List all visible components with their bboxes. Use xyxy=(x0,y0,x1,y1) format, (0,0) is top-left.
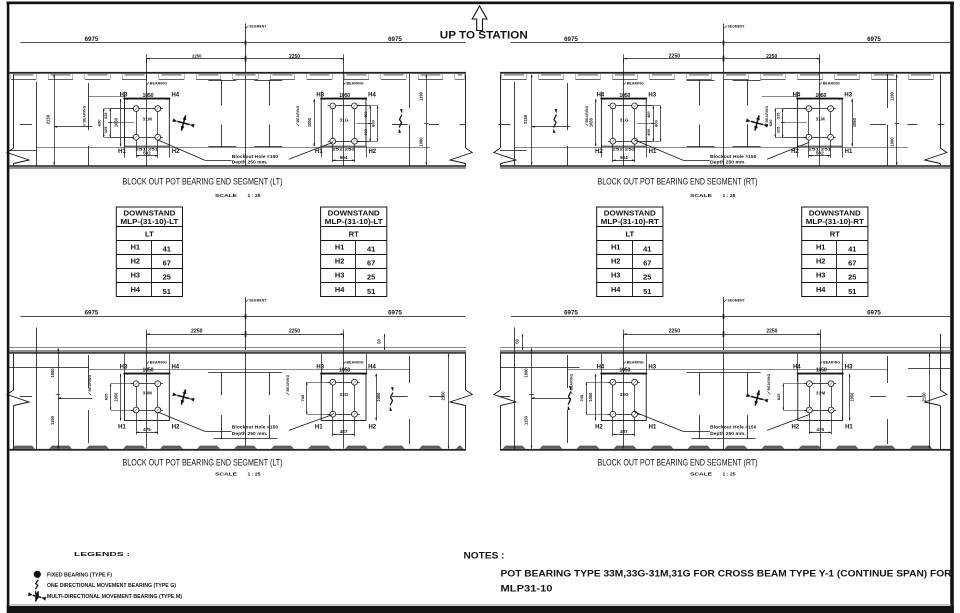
svg-text:2250: 2250 xyxy=(766,329,777,335)
svg-text:325: 325 xyxy=(776,126,781,133)
svg-text:Depth 250 mm.: Depth 250 mm. xyxy=(710,160,746,166)
svg-text:MLP-(31-10)-LT: MLP-(31-10)-LT xyxy=(325,217,384,226)
svg-text:825: 825 xyxy=(776,393,781,400)
svg-text:1050: 1050 xyxy=(339,367,350,373)
svg-text:487: 487 xyxy=(620,429,628,434)
svg-text:H3: H3 xyxy=(335,271,344,280)
svg-text:6975: 6975 xyxy=(564,309,578,316)
svg-text:650: 650 xyxy=(97,119,102,126)
svg-text:67: 67 xyxy=(848,259,856,268)
svg-text:475: 475 xyxy=(816,427,824,432)
svg-text:H3: H3 xyxy=(316,365,324,371)
svg-text:BEARING: BEARING xyxy=(296,105,300,122)
svg-text:31M: 31M xyxy=(143,117,152,122)
svg-text:MLP-(31-10)-RT: MLP-(31-10)-RT xyxy=(601,217,660,226)
svg-text:31G: 31G xyxy=(339,117,348,122)
svg-text:6975: 6975 xyxy=(867,36,881,43)
svg-text:31M: 31M xyxy=(816,117,825,122)
svg-text:H1: H1 xyxy=(816,243,825,252)
svg-text:BEARING: BEARING xyxy=(585,105,589,122)
svg-text:H2: H2 xyxy=(595,424,603,430)
svg-text:1000: 1000 xyxy=(419,137,424,147)
svg-text:H3: H3 xyxy=(844,93,852,99)
svg-text:1050: 1050 xyxy=(339,93,350,99)
svg-text:1000: 1000 xyxy=(523,368,528,378)
svg-text:FIXED BEARING (TYPE F): FIXED BEARING (TYPE F) xyxy=(47,573,112,579)
svg-text:SEGMENT: SEGMENT xyxy=(249,298,266,302)
svg-text:2250: 2250 xyxy=(191,329,203,335)
svg-text:UP TO STATION: UP TO STATION xyxy=(440,29,528,41)
svg-text:33G: 33G xyxy=(339,392,348,397)
svg-text:Depth 250 mm.: Depth 250 mm. xyxy=(232,160,268,166)
svg-text:25: 25 xyxy=(163,273,171,282)
svg-text:487: 487 xyxy=(340,429,348,434)
svg-text:H3: H3 xyxy=(120,365,128,371)
svg-text:2150: 2150 xyxy=(921,392,926,402)
svg-text:2250: 2250 xyxy=(192,53,202,58)
svg-text:H2: H2 xyxy=(368,424,376,430)
svg-text:H1: H1 xyxy=(649,424,657,430)
svg-text:H1: H1 xyxy=(335,243,344,252)
svg-text:BEARING: BEARING xyxy=(347,81,364,85)
svg-text:Blockout Hole #150: Blockout Hole #150 xyxy=(232,154,279,160)
svg-text:325: 325 xyxy=(103,112,108,119)
svg-text:Blockout Hole #150: Blockout Hole #150 xyxy=(710,425,757,431)
svg-text:RT: RT xyxy=(830,230,840,239)
svg-text:2250: 2250 xyxy=(289,54,300,60)
svg-text:H4: H4 xyxy=(597,365,605,371)
svg-text:BLOCK OUT POT BEARING END SEG: BLOCK OUT POT BEARING END SEGMENT (RT) xyxy=(598,175,758,186)
svg-text:BEARING: BEARING xyxy=(823,361,840,365)
svg-text:745: 745 xyxy=(579,394,584,401)
svg-text:Depth 250 mm.: Depth 250 mm. xyxy=(710,431,746,437)
svg-text:H3: H3 xyxy=(316,93,324,99)
svg-text:1050: 1050 xyxy=(143,367,154,373)
svg-text:475: 475 xyxy=(143,427,151,432)
svg-text:BLOCK OUT POT BEARING END SEG: BLOCK OUT POT BEARING END SEGMENT (LT) xyxy=(123,175,283,186)
svg-text:SCALE: SCALE xyxy=(215,472,237,477)
svg-text:H3: H3 xyxy=(648,365,656,371)
svg-text:2250: 2250 xyxy=(289,329,300,335)
svg-text:51: 51 xyxy=(163,287,171,296)
svg-text:1050: 1050 xyxy=(815,93,826,99)
svg-text:H2: H2 xyxy=(595,149,603,155)
svg-text:400: 400 xyxy=(646,111,651,118)
svg-text:1050: 1050 xyxy=(143,93,154,99)
svg-text:33M: 33M xyxy=(143,391,152,396)
svg-text:Blockout Hole #150: Blockout Hole #150 xyxy=(232,425,279,431)
svg-text:1000: 1000 xyxy=(50,368,55,378)
svg-text:67: 67 xyxy=(163,259,171,268)
svg-text:1050: 1050 xyxy=(376,392,381,402)
svg-text:400: 400 xyxy=(646,128,651,135)
svg-text:33G: 33G xyxy=(620,392,629,397)
svg-text:H2: H2 xyxy=(335,257,344,266)
svg-text:H3: H3 xyxy=(648,93,656,99)
svg-text:BEARING: BEARING xyxy=(627,361,644,365)
svg-text:H2: H2 xyxy=(172,424,180,430)
svg-text:6975: 6975 xyxy=(85,36,99,43)
svg-text:H4: H4 xyxy=(816,285,826,294)
svg-text:6975: 6975 xyxy=(564,36,578,43)
svg-text:325: 325 xyxy=(776,112,781,119)
svg-text:800: 800 xyxy=(370,119,375,126)
svg-text:41: 41 xyxy=(848,245,856,254)
svg-text:H1: H1 xyxy=(118,149,126,155)
svg-text:BLOCK OUT POT BEARING END SEG: BLOCK OUT POT BEARING END SEGMENT (RT) xyxy=(598,456,758,467)
svg-text:325: 325 xyxy=(103,126,108,133)
svg-text:1050: 1050 xyxy=(852,117,857,127)
svg-text:BEARING: BEARING xyxy=(765,105,769,122)
svg-text:BEARING: BEARING xyxy=(823,81,840,85)
svg-text:1150: 1150 xyxy=(50,415,55,425)
svg-text:H4: H4 xyxy=(368,365,376,371)
svg-text:502: 502 xyxy=(143,151,151,156)
svg-text:2150: 2150 xyxy=(46,114,51,124)
svg-text:25: 25 xyxy=(367,273,375,282)
svg-text:H1: H1 xyxy=(649,149,657,155)
svg-text:51: 51 xyxy=(367,287,375,296)
svg-text:LT: LT xyxy=(145,230,154,239)
svg-text:ONE DIRECTIONAL MOVEMENT BEARI: ONE DIRECTIONAL MOVEMENT BEARING (TYPE G… xyxy=(47,583,176,589)
svg-text:6975: 6975 xyxy=(867,309,881,316)
svg-text:H2: H2 xyxy=(172,149,180,155)
svg-text:SEGMENT: SEGMENT xyxy=(249,25,266,29)
svg-text:MLP31-10: MLP31-10 xyxy=(501,584,553,594)
svg-text:H4: H4 xyxy=(131,285,141,294)
svg-text:H2: H2 xyxy=(791,149,799,155)
svg-text:50: 50 xyxy=(515,339,520,344)
svg-text:H2: H2 xyxy=(611,257,620,266)
svg-text:41: 41 xyxy=(163,245,171,254)
svg-text:400: 400 xyxy=(363,111,368,118)
svg-text:504: 504 xyxy=(620,155,628,160)
svg-text:745: 745 xyxy=(300,394,305,401)
svg-text:1050: 1050 xyxy=(113,392,118,402)
svg-text:6975: 6975 xyxy=(388,36,402,43)
svg-text:BEARING: BEARING xyxy=(767,373,771,390)
svg-text:SCALE: SCALE xyxy=(690,193,712,198)
svg-text:H2: H2 xyxy=(368,149,376,155)
svg-text:1 : 25: 1 : 25 xyxy=(723,193,737,198)
svg-text:51: 51 xyxy=(848,287,856,296)
svg-text:1 : 25: 1 : 25 xyxy=(723,472,737,477)
svg-text:POT BEARING TYPE 33M,33G-31M,3: POT BEARING TYPE 33M,33G-31M,31G FOR CRO… xyxy=(501,569,953,579)
svg-text:1190: 1190 xyxy=(889,91,894,101)
svg-text:33M: 33M xyxy=(816,391,825,396)
svg-text:H1: H1 xyxy=(131,243,140,252)
svg-text:SEGMENT: SEGMENT xyxy=(728,298,745,302)
svg-text:1190: 1190 xyxy=(419,91,424,101)
svg-text:H1: H1 xyxy=(315,424,323,430)
svg-text:Blockout Hole #150: Blockout Hole #150 xyxy=(710,154,757,160)
svg-text:1 : 25: 1 : 25 xyxy=(248,193,262,198)
svg-text:H3: H3 xyxy=(120,93,128,99)
svg-text:H4: H4 xyxy=(611,285,621,294)
svg-text:BEARING: BEARING xyxy=(286,374,290,391)
svg-text:825: 825 xyxy=(104,393,109,400)
svg-text:1050: 1050 xyxy=(588,392,593,402)
svg-text:25: 25 xyxy=(848,273,856,282)
svg-text:400: 400 xyxy=(363,128,368,135)
svg-text:1050: 1050 xyxy=(589,117,594,127)
svg-text:BEARING: BEARING xyxy=(88,374,92,391)
svg-text:41: 41 xyxy=(643,245,651,254)
svg-text:H3: H3 xyxy=(611,271,620,280)
svg-text:LEGENDS :: LEGENDS : xyxy=(74,552,130,558)
svg-text:RT: RT xyxy=(349,230,359,239)
svg-text:H4: H4 xyxy=(335,285,345,294)
svg-text:1050: 1050 xyxy=(850,392,855,402)
svg-text:NOTES :: NOTES : xyxy=(464,551,505,561)
svg-text:H4: H4 xyxy=(793,365,801,371)
svg-text:50: 50 xyxy=(377,339,382,344)
svg-text:67: 67 xyxy=(643,259,651,268)
svg-text:1 : 25: 1 : 25 xyxy=(248,472,262,477)
svg-text:H3: H3 xyxy=(131,271,140,280)
svg-text:H4: H4 xyxy=(171,365,179,371)
svg-text:51: 51 xyxy=(643,287,651,296)
svg-text:H2: H2 xyxy=(131,257,140,266)
svg-text:H4: H4 xyxy=(368,93,376,99)
svg-text:BEARING: BEARING xyxy=(83,105,87,122)
svg-text:H1: H1 xyxy=(845,149,853,155)
svg-text:SCALE: SCALE xyxy=(690,472,712,477)
svg-text:H1: H1 xyxy=(845,424,853,430)
svg-text:67: 67 xyxy=(367,259,375,268)
svg-text:MLP-(31-10)-LT: MLP-(31-10)-LT xyxy=(120,217,179,226)
svg-text:800: 800 xyxy=(654,119,659,126)
svg-text:BEARING: BEARING xyxy=(150,81,167,85)
svg-text:502: 502 xyxy=(816,151,824,156)
svg-text:2250: 2250 xyxy=(669,53,681,59)
svg-text:H4: H4 xyxy=(793,93,801,99)
svg-text:BLOCK OUT POT BEARING END SEG: BLOCK OUT POT BEARING END SEGMENT (LT) xyxy=(123,456,283,467)
svg-text:LT: LT xyxy=(625,230,634,239)
svg-text:BEARING: BEARING xyxy=(347,361,364,365)
svg-text:BEARING: BEARING xyxy=(150,361,167,365)
svg-text:25: 25 xyxy=(643,273,651,282)
svg-text:SCALE: SCALE xyxy=(215,193,237,198)
svg-text:252 252: 252 252 xyxy=(332,148,355,152)
svg-text:31G: 31G xyxy=(620,117,629,122)
svg-text:1050: 1050 xyxy=(816,367,827,373)
svg-text:H2: H2 xyxy=(816,257,825,266)
svg-text:H4: H4 xyxy=(171,93,179,99)
svg-text:H4: H4 xyxy=(597,93,605,99)
svg-text:2250: 2250 xyxy=(766,54,777,60)
svg-text:1050: 1050 xyxy=(619,93,630,99)
svg-text:41: 41 xyxy=(367,245,375,254)
svg-text:H2: H2 xyxy=(791,424,799,430)
svg-text:BEARING: BEARING xyxy=(627,81,644,85)
svg-text:H3: H3 xyxy=(816,271,825,280)
svg-text:1150: 1150 xyxy=(523,415,528,425)
svg-text:MULTI-DIRECTIONAL MOVEMENT BEA: MULTI-DIRECTIONAL MOVEMENT BEARING (TYPE… xyxy=(47,594,182,600)
svg-text:1000: 1000 xyxy=(889,137,894,147)
svg-text:Depth 250 mm.: Depth 250 mm. xyxy=(232,431,268,437)
svg-text:2150: 2150 xyxy=(440,391,445,401)
svg-text:252 252: 252 252 xyxy=(612,148,635,152)
svg-text:1050: 1050 xyxy=(619,367,630,373)
svg-text:1050: 1050 xyxy=(307,117,312,127)
svg-text:504: 504 xyxy=(340,155,348,160)
svg-text:H1: H1 xyxy=(611,243,620,252)
svg-text:2150: 2150 xyxy=(523,114,528,124)
svg-text:6975: 6975 xyxy=(85,309,99,316)
svg-text:SEGMENT: SEGMENT xyxy=(728,25,745,29)
svg-text:H1: H1 xyxy=(315,149,323,155)
svg-text:MLP-(31-10)-RT: MLP-(31-10)-RT xyxy=(806,217,865,226)
svg-text:2250: 2250 xyxy=(669,329,681,335)
svg-text:H3: H3 xyxy=(845,365,853,371)
svg-text:6975: 6975 xyxy=(388,309,402,316)
svg-text:H1: H1 xyxy=(118,424,126,430)
